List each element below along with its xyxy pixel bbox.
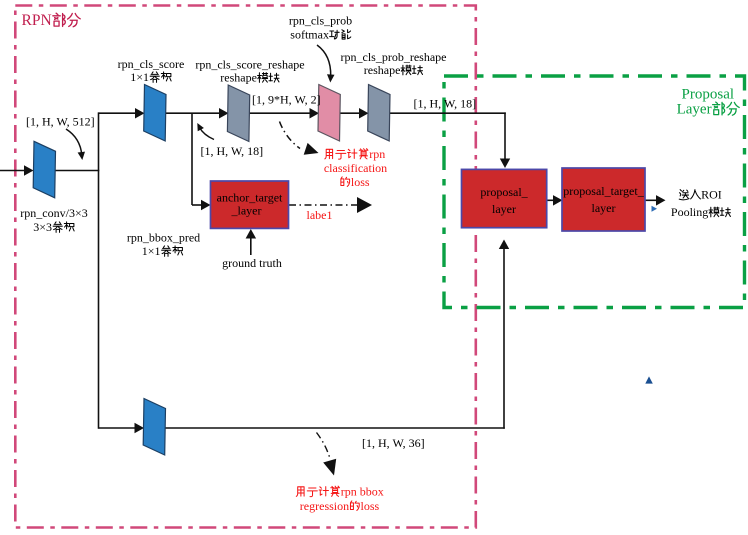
curved arrow [1,H,W,512] to wire — [66, 129, 82, 155]
svg-text:[1, H, W, 18]: [1, H, W, 18] — [201, 144, 264, 158]
dashed box Proposal Layer section — [444, 76, 745, 308]
curved arrow softmax label to shape — [317, 45, 331, 76]
dash-dot arrow anchor label out — [289, 204, 357, 206]
softmax module rpn_cls_prob parallelogram — [318, 85, 340, 142]
svg-text:regression: regression — [300, 499, 349, 513]
svg-text:[1, H, W, 512]: [1, H, W, 512] — [26, 115, 95, 129]
conv layer rpn_bbox_pred parallelogram — [143, 399, 165, 456]
svg-text:ROI: ROI — [701, 188, 722, 202]
label send to ROI pooling — [679, 190, 689, 200]
wire reshape to softmax — [250, 112, 311, 114]
svg-text:rpn_cls_prob_reshape: rpn_cls_prob_reshape — [341, 50, 447, 64]
svg-text:layer: layer — [492, 202, 516, 216]
svg-text:RPN: RPN — [22, 12, 52, 29]
reshape module rpn_cls_score_reshape parallelogram — [227, 85, 249, 142]
reshape module rpn_cls_prob_reshape parallelogram — [368, 85, 390, 142]
svg-text:rpn_cls_score_reshape: rpn_cls_score_reshape — [195, 58, 304, 72]
svg-text:rpn_bbox_pred: rpn_bbox_pred — [127, 231, 200, 245]
wire rpn_conv to junction — [55, 170, 100, 172]
svg-text:rpn_conv/3×3: rpn_conv/3×3 — [20, 206, 87, 220]
svg-text:3×3: 3×3 — [33, 220, 52, 234]
svg-text:classification: classification — [324, 161, 387, 175]
label classification loss red — [325, 149, 333, 159]
wire proposal to proposal_target — [547, 199, 554, 201]
wire bottom branch to rpn_bbox_pred — [99, 427, 136, 429]
svg-text:reshape: reshape — [220, 71, 257, 85]
wire corner up to proposal_layer bottom — [503, 248, 505, 429]
wire junction vertical — [98, 112, 100, 428]
svg-text:layer: layer — [592, 201, 616, 215]
svg-text:_layer: _layer — [231, 204, 262, 218]
svg-text:anchor_target: anchor_target — [217, 191, 283, 205]
svg-text:rpn: rpn — [369, 147, 385, 161]
svg-text:rpn bbox: rpn bbox — [341, 485, 384, 499]
curved arrow [1,H,W,18] to junction — [200, 128, 215, 140]
box proposal_layer — [462, 169, 547, 227]
svg-text:[1, 9*H, W, 2]: [1, 9*H, W, 2] — [252, 93, 321, 107]
svg-text:softmax: softmax — [290, 28, 329, 42]
conv layer rpn_cls_score parallelogram — [144, 85, 166, 142]
svg-text:proposal_: proposal_ — [480, 185, 528, 199]
svg-text:loss: loss — [351, 175, 370, 189]
svg-text:[1, H, W, 18]: [1, H, W, 18] — [414, 97, 477, 111]
dashed box RPN section — [15, 6, 476, 528]
wire proposal_target out to ROI — [645, 199, 657, 201]
wire rpn_cls_score to reshape — [166, 112, 221, 114]
wire corner down to proposal_layer — [504, 112, 506, 159]
label bbox regression loss red — [296, 487, 304, 497]
box proposal_target_layer — [562, 168, 645, 231]
box anchor_target_layer — [211, 181, 289, 228]
svg-text:reshape: reshape — [364, 63, 401, 77]
conv layer rpn_conv parallelogram — [33, 141, 55, 198]
svg-text:Proposal: Proposal — [682, 87, 735, 103]
svg-text:Layer: Layer — [677, 102, 712, 118]
svg-text:proposal_target_: proposal_target_ — [563, 184, 644, 198]
svg-text:1×1: 1×1 — [130, 70, 149, 84]
svg-text:Pooling: Pooling — [671, 205, 708, 219]
svg-text:[1, H, W, 36]: [1, H, W, 36] — [362, 436, 425, 450]
svg-text:loss: loss — [361, 499, 380, 513]
wire rpn_bbox_pred to corner — [166, 427, 505, 429]
artifact small blue triangle right — [652, 206, 658, 212]
svg-text:rpn_cls_prob: rpn_cls_prob — [289, 14, 352, 28]
dash-dot curved arrow to bbox regression loss — [317, 433, 331, 460]
wire junction to anchor vertical — [191, 113, 193, 205]
wire junction to rpn_cls_score — [99, 112, 137, 114]
wire input to rpn_conv — [0, 170, 25, 172]
svg-text:labe1: labe1 — [307, 208, 333, 222]
wire ground truth up-arrow — [250, 237, 252, 255]
artifact small blue triangle up — [645, 376, 653, 383]
wire to anchor_target_layer — [192, 204, 202, 206]
svg-text:1×1: 1×1 — [142, 244, 161, 258]
wire softmax to cls_prob_reshape — [341, 112, 361, 114]
wire cls_prob_reshape to corner — [390, 112, 506, 114]
dash-dot curved arrow to classification loss — [280, 122, 301, 149]
svg-text:rpn_cls_score: rpn_cls_score — [118, 57, 185, 71]
svg-text:ground truth: ground truth — [222, 256, 282, 270]
